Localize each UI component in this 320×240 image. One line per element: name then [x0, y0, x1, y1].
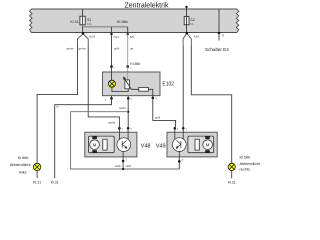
svg-text:A20: A20 — [194, 34, 200, 38]
svg-text:Schalter E4: Schalter E4 — [205, 47, 229, 52]
svg-text:Kl.31: Kl.31 — [70, 20, 78, 24]
node B5 — [127, 33, 129, 35]
wire ge/sw to left lamp — [37, 46, 77, 164]
wire V48 pin3 to bus — [122, 161, 124, 169]
brush bottom — [92, 150, 97, 153]
svg-text:ge/sw: ge/sw — [79, 47, 86, 51]
splice arrow left — [78, 34, 89, 45]
svg-text:ge: ge — [130, 48, 133, 51]
E102 bottom pin 1 — [111, 96, 113, 99]
svg-text:S2: S2 — [190, 18, 194, 22]
svg-text:ge/sw: ge/sw — [66, 47, 73, 51]
E102 bottom pin 4 — [152, 96, 154, 98]
V48 pin 2 — [127, 127, 130, 130]
resistor in E102 — [139, 87, 149, 91]
svg-text:M: M — [206, 142, 210, 147]
wire tap to node C12 — [111, 27, 113, 34]
svg-text:Kl.31: Kl.31 — [51, 180, 59, 184]
wire E102 pin4 to V49 pin1 — [153, 98, 176, 127]
svg-text:Kl.31: Kl.31 — [228, 180, 236, 184]
svg-text:5A: 5A — [190, 22, 193, 26]
svg-text:Abblendlicht: Abblendlicht — [10, 163, 32, 167]
E102 internal wire to lamp — [111, 72, 113, 80]
regulator E102 box — [103, 72, 161, 96]
E102 bottom pin 2 — [127, 96, 129, 99]
svg-text:E102: E102 — [162, 81, 174, 87]
fuse S1 — [80, 16, 85, 25]
wire lamp right to ground — [231, 171, 233, 179]
lamp in E102 — [108, 80, 115, 87]
svg-text:C/12: C/12 — [114, 36, 120, 39]
svg-text:A1/1: A1/1 — [89, 35, 96, 39]
wire S1 feed through band — [82, 9, 84, 16]
motor housing — [188, 136, 214, 153]
motor housing — [88, 136, 114, 153]
wire tap to node B5 — [127, 27, 129, 34]
svg-text:gr/bl: gr/bl — [114, 47, 120, 51]
svg-text:B/5: B/5 — [130, 36, 134, 39]
svg-text:links: links — [19, 170, 27, 174]
pin E102/t — [110, 65, 113, 68]
E102 internal bus — [112, 87, 128, 91]
potentiometer in E102 — [123, 72, 132, 90]
svg-text:rechts: rechts — [240, 168, 250, 172]
wire junction to return bus — [71, 112, 180, 169]
motor V48 box — [85, 132, 137, 157]
motor M circle — [203, 140, 213, 150]
svg-text:10A: 10A — [87, 22, 92, 26]
fuse S2 — [184, 16, 189, 24]
V48 pin 3 — [122, 157, 124, 161]
wire S1 to node A1/1 — [82, 27, 84, 33]
svg-text:Kl.56b: Kl.56b — [130, 62, 140, 66]
svg-text:sw/bl: sw/bl — [119, 106, 126, 110]
svg-text:Kl.56b: Kl.56b — [240, 156, 251, 160]
brush top — [205, 136, 210, 139]
svg-text:V49: V49 — [156, 143, 166, 149]
wire to V49 pin2 — [182, 45, 184, 127]
svg-text:sw/bl: sw/bl — [115, 165, 121, 168]
wire gr/bl to E102 lamp pin — [111, 34, 113, 67]
wire to right lamp — [191, 45, 231, 164]
svg-text:Kl.31: Kl.31 — [33, 180, 41, 184]
resistor element — [103, 139, 107, 150]
feedback sensor circle — [117, 138, 131, 152]
lamp left (Abblendlicht links) — [33, 163, 40, 170]
lamp right (Abblendlicht rechts) — [228, 163, 235, 170]
feedback sensor circle — [172, 138, 186, 152]
node A1/1 — [82, 32, 85, 35]
svg-text:M: M — [93, 142, 97, 147]
wire resistor to pin 4 — [148, 89, 152, 95]
wiper symbol — [121, 141, 123, 148]
svg-text:Abblendlicht: Abblendlicht — [240, 162, 262, 166]
svg-text:Kl.58b: Kl.58b — [117, 20, 128, 24]
wire lamp left to ground — [36, 171, 38, 179]
splice arrow right — [183, 34, 191, 45]
wire E102 pin1 to ground Kl.31 — [55, 98, 112, 178]
svg-text:gr/bl: gr/bl — [155, 115, 161, 119]
wire ge/sw to motor V48 pin1 — [88, 46, 119, 128]
wire S2 to node A20 — [186, 25, 188, 33]
fuse S2 node above band — [185, 6, 187, 8]
motor M circle — [90, 140, 100, 150]
V49 pin 3 — [178, 157, 180, 162]
V49 pin 2 — [174, 127, 177, 130]
svg-text:V48: V48 — [141, 143, 151, 149]
resistor element — [195, 139, 199, 150]
wire wiper to resistor — [132, 88, 139, 90]
brush bottom — [205, 150, 210, 153]
motor V49 box — [167, 132, 217, 157]
internal band line 58b — [83, 25, 128, 27]
bus bar band (Zentralelektrik) — [30, 9, 239, 33]
junction — [127, 111, 129, 113]
wire Kl.56b (grey) to E102 — [127, 34, 129, 66]
brush top — [92, 136, 97, 139]
node A20 — [186, 32, 189, 35]
wiper symbol — [180, 141, 182, 148]
svg-text:ge/sw: ge/sw — [108, 121, 115, 125]
svg-text:Kl.56b: Kl.56b — [18, 156, 29, 160]
svg-text:br: br — [57, 106, 59, 109]
V48 pin 1 — [118, 127, 121, 130]
wire V49 pin3 to bus — [178, 161, 180, 169]
node Schalter E4 — [218, 9, 220, 33]
svg-text:S1: S1 — [87, 18, 91, 22]
node C12 — [110, 33, 112, 35]
V49 pin 1 — [182, 127, 185, 130]
svg-text:sw/br: sw/br — [126, 165, 132, 168]
pin E102/u — [127, 65, 129, 67]
wire E102 pin2 down to V48 pin2 — [127, 98, 129, 127]
